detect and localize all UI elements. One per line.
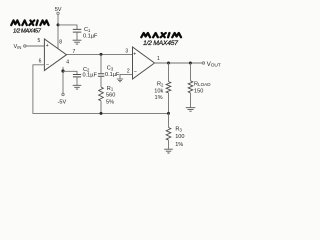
junction RLOAD top bbox=[189, 62, 192, 65]
svg-text:4: 4 bbox=[66, 59, 69, 65]
wire C3 to R1 bbox=[100, 76, 102, 87]
junction pin4 node bbox=[61, 69, 64, 72]
svg-text:0.1µF: 0.1µF bbox=[105, 72, 120, 78]
svg-text:-5V: -5V bbox=[58, 100, 67, 106]
svg-text:10k: 10k bbox=[154, 89, 163, 95]
svg-text:VIN: VIN bbox=[14, 44, 22, 50]
capacitor C1 bbox=[73, 29, 82, 32]
svg-text:RLOAD: RLOAD bbox=[194, 81, 211, 87]
wire pin7 output to U2 pin3 bbox=[67, 53, 133, 55]
svg-text:560: 560 bbox=[106, 93, 115, 99]
svg-text:6: 6 bbox=[39, 58, 42, 64]
wire to C1 bbox=[58, 25, 77, 29]
svg-text:5%: 5% bbox=[106, 99, 114, 105]
svg-text:+: + bbox=[133, 52, 136, 58]
capacitor C3 bbox=[98, 74, 104, 77]
wire R3 top bbox=[168, 113, 170, 127]
resistor RLOAD bbox=[188, 81, 193, 93]
svg-text:VOUT: VOUT bbox=[207, 62, 221, 69]
wire pin4 down bbox=[62, 67, 64, 93]
node -5V terminal bbox=[62, 93, 64, 95]
svg-text:1/2 MAX457: 1/2 MAX457 bbox=[13, 29, 42, 35]
junction R1 bottom bbox=[100, 112, 103, 115]
svg-text:+: + bbox=[46, 43, 49, 49]
svg-text:0.1µF: 0.1µF bbox=[83, 72, 98, 78]
ground (C1) bbox=[73, 40, 82, 44]
ground (R3) bbox=[164, 149, 173, 153]
svg-text:R3: R3 bbox=[175, 126, 182, 132]
wire pin6 feedback left/down bbox=[33, 65, 169, 114]
wire pin4 to C2 bbox=[63, 71, 77, 74]
op-amp U1 (1/2 MAX457) bbox=[44, 39, 66, 71]
resistor R2 bbox=[166, 82, 171, 93]
svg-text:1%: 1% bbox=[175, 142, 183, 148]
ground (pin2) bbox=[117, 79, 123, 82]
op-amp U2 (1/2 MAX457) bbox=[133, 47, 155, 79]
wire 5V vertical to op-amp top edge bbox=[57, 15, 59, 49]
svg-text:8: 8 bbox=[59, 40, 62, 46]
wire down to C3 bbox=[100, 54, 102, 73]
svg-text:100: 100 bbox=[175, 134, 184, 140]
wire VIN to pin 5 bbox=[26, 45, 44, 47]
svg-text:5: 5 bbox=[38, 38, 41, 44]
svg-text:1: 1 bbox=[157, 56, 160, 62]
wire U2 output to VOUT bbox=[155, 62, 203, 64]
wire R2 top bbox=[168, 63, 170, 82]
junction R2 bottom / R3 top bbox=[167, 112, 170, 115]
svg-text:R1: R1 bbox=[107, 86, 114, 92]
MAXIM logo (left) bbox=[11, 20, 48, 25]
wire RLOAD top bbox=[190, 63, 192, 81]
capacitor C2 bbox=[73, 75, 81, 77]
svg-text:150: 150 bbox=[194, 89, 203, 95]
svg-text:C3: C3 bbox=[107, 65, 114, 71]
resistor R3 bbox=[166, 128, 171, 141]
svg-text:−: − bbox=[134, 70, 137, 76]
resistor R1 bbox=[99, 87, 104, 101]
junction R2 top bbox=[167, 62, 170, 65]
MAXIM logo (right) bbox=[141, 33, 181, 37]
svg-text:2: 2 bbox=[127, 68, 130, 74]
junction C3 branch bbox=[100, 53, 103, 56]
svg-text:1/2 MAX457: 1/2 MAX457 bbox=[143, 40, 178, 47]
svg-text:0.1µF: 0.1µF bbox=[83, 33, 98, 39]
wire pin2 to ground bbox=[120, 74, 133, 78]
svg-text:7: 7 bbox=[73, 49, 76, 55]
node VOUT terminal bbox=[202, 62, 204, 64]
svg-text:−: − bbox=[46, 62, 49, 68]
svg-text:1%: 1% bbox=[155, 95, 163, 101]
ground (RLOAD) bbox=[186, 108, 196, 112]
svg-text:C1: C1 bbox=[84, 27, 91, 33]
junction 5V/C1 bbox=[57, 23, 60, 26]
svg-text:3: 3 bbox=[125, 49, 128, 55]
svg-text:R2: R2 bbox=[157, 82, 164, 88]
ground (C2) bbox=[73, 85, 82, 89]
